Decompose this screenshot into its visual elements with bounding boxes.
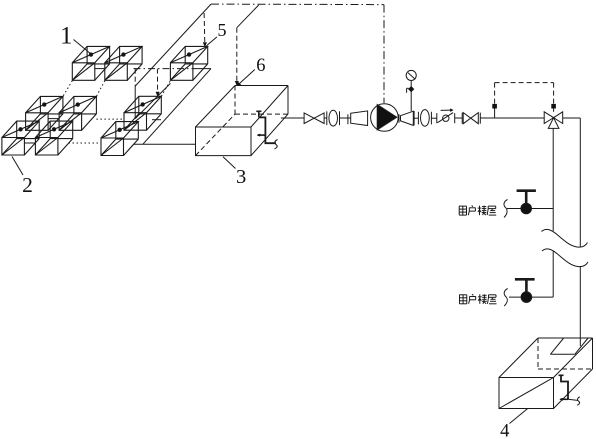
svg-text:4: 4 — [500, 422, 509, 439]
tank 3 (storage tank) — [196, 86, 289, 156]
svg-text:5: 5 — [218, 20, 227, 40]
riser pipe to floors (lower) — [552, 252, 554, 298]
riser pipe to floors (upper) — [552, 128, 554, 231]
roof plane left vertical edge — [134, 86, 136, 119]
sensor tap T1 (black square) — [492, 104, 497, 118]
pipe V1 to flex joint — [324, 117, 327, 119]
text label 用户楼层 (floor 2) — [459, 294, 496, 304]
label 1 — [60, 23, 90, 54]
svg-text:6: 6 — [256, 56, 265, 76]
pump P1 — [371, 104, 399, 132]
floor branch 1 pipe — [507, 208, 553, 210]
label 6 — [237, 56, 265, 86]
dashed drop to roof plane corner — [134, 69, 136, 87]
faucet F1 — [517, 191, 536, 214]
collector box 2 back-left — [26, 96, 63, 130]
collector box 5 (roof collector) — [170, 46, 207, 80]
pipe V3 to corner — [563, 117, 581, 119]
collector box 2 front-left — [2, 121, 39, 155]
gate valve V1 — [304, 113, 324, 124]
three-way valve V3 — [544, 112, 563, 129]
check valve CV1 — [437, 109, 455, 124]
discharge bar — [413, 111, 415, 125]
roof main dash-dot pipe (horizontal) — [211, 3, 384, 6]
dotted link row1-right to cluster — [96, 81, 104, 97]
svg-text:1: 1 — [60, 23, 73, 50]
riser pipe to roof tank (upper) — [579, 118, 581, 247]
pipe tank3 to valve V1 — [281, 117, 304, 119]
pipe to flex joint J2 — [414, 117, 418, 119]
tank 4 float valve assembly — [559, 375, 580, 405]
flexible joint J1 — [327, 110, 340, 126]
gate valve V2 with flanges — [462, 113, 480, 124]
collector middle front — [101, 122, 138, 156]
tank 3 internal suction pipe and level switch — [256, 111, 277, 149]
svg-text:3: 3 — [236, 166, 246, 188]
45-deg jog from roof main to down pipe — [237, 5, 259, 28]
pipe to reducer — [340, 117, 348, 119]
feed line into tank 3 — [134, 143, 197, 145]
collector box 1a (row 1 left) — [72, 46, 109, 80]
floor branch 2 pipe — [509, 296, 553, 298]
discharge flange bar — [398, 114, 400, 122]
roof main dash-dot pipe (vertical to pump) — [383, 5, 385, 103]
pipe break wave lower — [542, 249, 588, 267]
shelf seg between cluster back boxes — [48, 118, 59, 120]
dotted link row1-left to cluster — [63, 81, 72, 97]
dotted link middle box to collector 5 — [161, 81, 170, 97]
discharge reducer — [401, 111, 415, 125]
riser pipe to roof tank (lower) — [579, 266, 581, 346]
shelf seg right of middle back box — [152, 119, 161, 121]
break squiggle branch 1 — [504, 200, 508, 218]
shelf seg between cluster front boxes — [24, 142, 35, 144]
gutter line between row-1 collectors — [94, 68, 104, 70]
45-deg drop from gutter to tank 3 feed line — [143, 69, 211, 145]
dashed drop with arrow onto collector 5 — [203, 13, 207, 47]
break squiggle branch 2 — [504, 289, 508, 307]
dashed drop with arrow onto middle collector — [156, 69, 160, 97]
suction reducer — [348, 111, 368, 126]
dashed control loop — [495, 83, 554, 104]
sensor tap T2 (black square) — [551, 104, 556, 112]
flexible joint J2 — [418, 110, 431, 127]
dotted link cluster to middle front box — [69, 142, 102, 144]
roof plane bottom 45-deg edge — [135, 83, 170, 118]
text label 用户楼层 (floor 1) — [459, 206, 496, 216]
label 4 — [500, 409, 528, 439]
faucet F2 — [515, 279, 535, 302]
collector box 2 back-right — [59, 96, 96, 130]
collector box 2 front-right — [35, 121, 72, 155]
pipe V2 to three-way valve — [480, 117, 544, 119]
roof rail (45-deg solid edge) — [135, 4, 211, 86]
pressure gauge G1 — [406, 70, 416, 111]
pipe break wave upper — [542, 229, 588, 247]
roof tank 4 — [499, 338, 593, 409]
dotted link cluster to middle back box — [96, 118, 124, 120]
svg-text:2: 2 — [22, 173, 33, 197]
gutter dash-dot pipe behind collector 5 — [134, 68, 212, 70]
pipe CV1 to valve V2 — [455, 117, 463, 119]
pipe to check valve — [431, 117, 436, 119]
label 2 — [12, 157, 33, 198]
dashed drop with arrow onto tank 3 corner — [235, 28, 239, 86]
collector middle back — [124, 96, 161, 130]
label 5 — [207, 20, 227, 46]
label 3 — [223, 157, 246, 188]
collector box 1b (row 1 right) — [105, 46, 142, 80]
suction flange bar — [347, 114, 349, 124]
